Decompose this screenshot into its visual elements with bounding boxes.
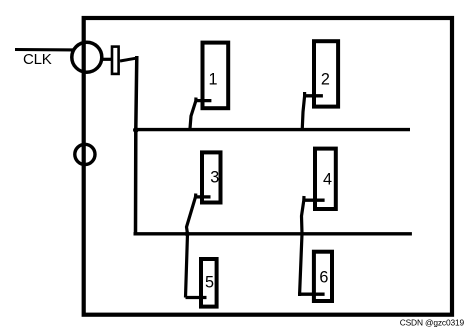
flip-flop 1: [203, 43, 229, 109]
node junction branch2-FF3 wire: [185, 231, 190, 236]
pin stub FF3: [196, 195, 211, 198]
flip-flop 4: [315, 149, 336, 209]
pin stub FF4: [304, 199, 325, 202]
svg-text:6: 6: [319, 269, 328, 287]
pin stub FF6 wire: [298, 293, 325, 296]
clock buffer B1: [112, 47, 119, 74]
svg-text:CSDN @gzc0319: CSDN @gzc0319: [400, 318, 465, 328]
wire FF3 branch2 to FF5: [186, 194, 196, 298]
wire circle to buffer: [101, 58, 112, 61]
wire CLK input: [15, 48, 74, 52]
wire FF2 to branch1: [302, 92, 304, 131]
wire clock branch line 2: [134, 232, 412, 235]
chip boundary box: [84, 18, 452, 315]
wire buffer to trunk: [120, 58, 136, 61]
wire clock trunk vertical: [136, 56, 137, 234]
clock source circle P1: [72, 42, 102, 72]
svg-text:5: 5: [205, 274, 214, 292]
pin stub FF1: [195, 99, 212, 102]
svg-text:CLK: CLK: [23, 51, 52, 68]
pad circle P2 on left border: [75, 144, 95, 164]
flip-flop 3: [202, 152, 221, 202]
node junction trunk-branch1: [133, 127, 139, 133]
svg-text:4: 4: [323, 171, 332, 189]
pin stub FF2: [305, 94, 323, 97]
flip-flop 2: [314, 41, 338, 106]
svg-text:3: 3: [210, 169, 219, 187]
svg-text:2: 2: [321, 71, 330, 89]
svg-text:1: 1: [208, 71, 217, 89]
pin stub FF5: [186, 296, 207, 299]
flip-flop 5: [201, 259, 217, 307]
wire FF4 branch2 to FF6: [300, 196, 304, 296]
wire FF1 to branch1: [190, 98, 196, 130]
wire clock branch line 1: [134, 128, 410, 131]
flip-flop 6: [314, 252, 332, 301]
